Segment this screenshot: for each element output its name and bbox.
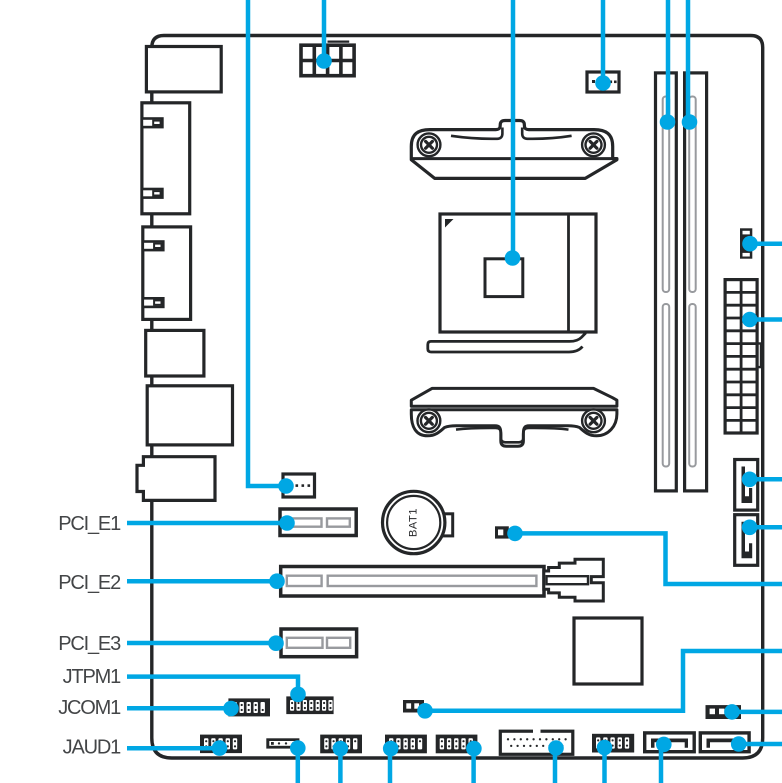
dot PUMP_FAN1 [278, 478, 294, 494]
connector SATA2 (vertical) [735, 515, 758, 566]
rear IO block 4 (USB) [146, 330, 204, 376]
callout dots [212, 53, 758, 756]
callout line JRGB1 [296, 748, 301, 783]
battery BAT1 [383, 491, 453, 553]
callout line JFP2 [338, 749, 343, 783]
callout line PUMP_FAN1 [248, 0, 286, 486]
jumper JBAT1 [495, 526, 509, 538]
connector JUSB3 (USB 3.2 box) [500, 729, 573, 755]
dot PCI_E2 [269, 573, 285, 589]
header JRGB1 [266, 738, 299, 748]
dot SATA4 [731, 736, 747, 752]
rear IO block 5 (LAN-USB) [147, 386, 232, 445]
connector SATA4 (horizontal) [700, 733, 749, 752]
header JDASH1 [436, 735, 478, 754]
header JUSB1 [592, 734, 634, 753]
callout line JAUD1 [127, 746, 220, 751]
screw top-left [418, 133, 441, 156]
dot SATA2 [742, 520, 758, 536]
svg-text:PCI_E3: PCI_E3 [58, 633, 121, 655]
DIMM slot DIMMA1 [656, 73, 677, 491]
dot JRGB1 [290, 740, 306, 756]
callout line JCI1 [425, 651, 782, 711]
header JTPM1 [286, 696, 333, 714]
connector SATA3 (horizontal) [645, 733, 695, 752]
connector SYS_FAN1 (right edge small header) [740, 228, 752, 258]
dot JDASH1 [466, 741, 482, 757]
callout line SATA4 [739, 742, 782, 747]
slot PCI_E2 [281, 567, 544, 597]
CPU socket retention bracket top [411, 121, 617, 179]
rear IO block 1 (PS/2-USB) [146, 47, 221, 92]
callout line DIMMB1 [686, 0, 691, 122]
callout line DIMMA1 [666, 0, 671, 122]
dot ATX_PWR1 [742, 312, 758, 328]
callout line PCI_E3 [127, 641, 276, 646]
dot JSPK [724, 704, 740, 720]
dot JAUD1 [212, 740, 228, 756]
dot JUSB3 [548, 740, 564, 756]
dot SYS_FAN1 [742, 236, 758, 252]
rear IO block 3 (VGA) [143, 227, 191, 320]
CPU socket retention bracket bottom [411, 388, 617, 446]
callout line SATA1 [750, 477, 782, 482]
rear IO block 2 (DVI) [142, 103, 190, 214]
callout line PCI_E2 [127, 579, 277, 584]
dot SATA3 [656, 737, 672, 753]
header JFP1 [385, 735, 427, 754]
connector CPU_PWR1 (8-pin) [301, 42, 354, 76]
board outline [152, 36, 763, 759]
callout line JTPM1 [127, 677, 298, 694]
callout line CPU socket [511, 0, 516, 258]
callout line JUSB3 [553, 748, 558, 783]
slot PCI_E3 [281, 629, 357, 657]
dot JFP1 [383, 741, 399, 757]
slot PCI_E1 [280, 509, 356, 536]
callout line JFP1 [388, 749, 393, 783]
connector SATA1 (vertical) [735, 460, 758, 511]
dot JUSB1 [597, 740, 613, 756]
rear IO block 6 (audio jacks) [137, 457, 215, 501]
connector CPU_FAN1 [587, 72, 619, 92]
PCI_E2 latch [544, 559, 604, 601]
callout line SATA3 [659, 745, 664, 783]
dot JFP2 [333, 741, 349, 757]
svg-text:JTPM1: JTPM1 [63, 666, 121, 688]
svg-text:JAUD1: JAUD1 [63, 736, 121, 758]
dot CPU_FAN1 [595, 75, 611, 91]
dot JCI1 [417, 703, 433, 719]
jumper JCI1 [403, 700, 424, 713]
callout line JSPK [732, 710, 782, 715]
jumper JSPK (bottom right 2-pin) [706, 705, 742, 719]
callout line ATX_PWR1 [750, 317, 782, 322]
dot JCOM1 [223, 701, 239, 717]
header JFP2 [320, 735, 362, 754]
svg-text:PCI_E1: PCI_E1 [58, 513, 121, 535]
callout line PCI_E1 [127, 521, 287, 526]
dot SATA1 [742, 472, 758, 488]
screw bottom-left [418, 409, 441, 432]
callout line JBAT1 [515, 533, 782, 584]
dot PCI_E1 [279, 515, 295, 531]
header JCOM1 [228, 698, 270, 716]
dot CPU_PWR1 [316, 53, 332, 69]
chipset [574, 618, 642, 684]
svg-text:BAT1: BAT1 [408, 508, 420, 537]
screw bottom-right [582, 409, 605, 432]
callout line JCOM1 [127, 706, 231, 711]
dot DIMMA1 [660, 114, 676, 130]
svg-text:JCOM1: JCOM1 [58, 697, 121, 719]
dot DIMMB1 [682, 114, 698, 130]
callout line CPU_PWR1 [322, 0, 327, 61]
callout line JUSB1 [602, 748, 607, 783]
screw top-right [582, 133, 605, 156]
dot CPU socket [505, 250, 521, 266]
callout line SATA2 [750, 525, 782, 530]
svg-text:PCI_E2: PCI_E2 [58, 572, 121, 594]
dot PCI_E3 [268, 635, 284, 651]
dot JBAT1 [507, 526, 523, 542]
CPU socket AM4 [428, 214, 596, 352]
connector ATX_PWR1 (24-pin) [725, 280, 761, 433]
header JAUD1 [200, 735, 242, 754]
callout line JDASH1 [471, 749, 476, 783]
callout line SYS_FAN1 [750, 241, 782, 246]
callout line CPU_FAN1 [601, 0, 606, 83]
DIMM slot DIMMB1 [685, 73, 707, 491]
connector PUMP_FAN1 [283, 474, 315, 497]
dot JTPM1 [290, 687, 306, 703]
